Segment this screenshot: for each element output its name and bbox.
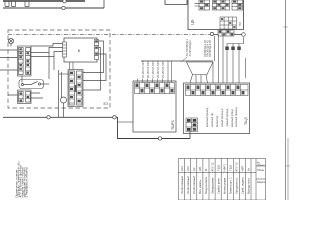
svg-text:ЦБ: ЦБ [190,19,195,25]
svg-text:Обнаружение: Обнаружение [211,177,215,194]
wire riser from harness junction [214,36,216,61]
connector cluster top 2 [213,0,230,10]
svg-text:Выводы конт.: Выводы конт. [247,178,251,194]
wire table (bottom right) [179,159,266,201]
svg-text:Б: Б [78,48,81,53]
wire funnel into TSchZ [187,62,214,83]
connector row TSchZ [186,85,249,96]
connector XS3 (pump block) [68,70,83,107]
svg-text:красный провод: красный провод [205,107,209,127]
svg-text:Срабат. реле: Срабат. реле [217,178,221,194]
wire riser to cut-off area [103,0,105,8]
svg-text:Особо важный: Особо важный [180,176,184,194]
fuse squares [225,47,229,51]
connector XP2 lower [18,90,32,104]
svg-text:Кн: Кн [247,167,251,171]
connector cluster top 1 [195,0,210,10]
wire bottom bus [3,117,190,138]
lamp HL1 [8,38,13,46]
wire color labels inside TSchZ [205,107,238,127]
svg-text:Тревога шл. 1: Тревога шл. 1 [229,177,233,194]
wire XP1 to ECU [31,44,63,80]
svg-text:ЗІ-ПРОВОД 2: ЗІ-ПРОВОД 2 [188,40,192,57]
svg-text:29-МУОЗ-ПР5: 29-МУОЗ-ПР5 [161,60,165,78]
motor M1 [59,70,67,117]
fuse row top-left (cut off) [3,0,85,2]
wire ECU to XS3 [70,62,74,70]
svg-text:черный провод: черный провод [225,108,229,127]
wire A1 right pins routing [83,41,106,90]
svg-text:Вкл. завесы: Вкл. завесы [198,179,202,194]
svg-text:ЕЗ: ЕЗ [104,102,109,106]
svg-text:ТШР1: ТШР1 [171,120,175,130]
connector cluster top 3 [232,0,243,10]
unit TShR1 box [133,81,176,132]
table body labels [180,176,266,194]
switch SA1 [19,76,49,89]
wire labels (rotated) [141,60,165,78]
harness dash-dot line [8,34,212,36]
wire tick XS3 left [59,73,70,75]
svg-text:Ш5: Ш5 [198,166,202,171]
node junction at box corner [113,116,116,119]
connector below CB [218,30,234,36]
notes text block (rotated) [15,161,29,198]
wire leader diagonal [181,57,187,62]
node junction mid bottom [158,137,161,140]
svg-text:АВТ: АВТ [241,165,245,171]
svg-text:зеленый провод: зеленый провод [234,107,238,127]
wire labels above funnel [185,38,212,57]
ECU A1 box [64,38,97,62]
svg-text:Вход контакта: Вход контакта [204,176,208,194]
svg-text:красный (общ): красный (общ) [230,109,234,127]
svg-text:28-МУОЗ-ПР4: 28-МУОЗ-ПР4 [156,60,160,78]
svg-text:синий провод 2: синий провод 2 [220,108,224,127]
node junction on bus2 [62,6,65,9]
wire stubs into XP1 from left [0,50,18,70]
svg-text:зеленый пр.: зеленый пр. [210,112,214,127]
relay K1 box (cut off) [165,0,187,5]
frame border right [285,0,287,200]
svg-text:Ф: Ф [204,169,208,171]
svg-text:объект: объект [257,164,266,167]
connector bottom of TSchZ [186,118,198,132]
svg-text:АТУ 12: АТУ 12 [211,162,215,171]
svg-text:25-МУОЗ-ПР1: 25-МУОЗ-ПР1 [141,60,145,78]
svg-text:ПРОВОД-6 КЗ: ПРОВОД-6 КЗ [208,40,212,57]
svg-text:Особо важный: Особо важный [186,176,190,194]
svg-text:АТУ 13: АТУ 13 [235,162,239,171]
wire harness solid segment [212,34,243,36]
wire bus2 [3,7,104,9]
svg-text:ХL2: ХL2 [186,166,190,171]
svg-text:ТШЗ: ТШЗ [217,165,221,171]
svg-text:ХL2: ХL2 [180,166,184,171]
svg-text:белый пр: белый пр [215,115,219,127]
svg-text:27-МУОЗ-ПРЗ: 27-МУОЗ-ПРЗ [151,61,155,78]
svg-text:ПЗ: ПЗ [238,22,242,26]
svg-text:Особо важный: Особо важный [192,176,196,194]
connector pins A1 left [63,42,67,57]
svg-text:26-МУОЗ-ПР2: 26-МУОЗ-ПР2 [146,60,150,78]
svg-text:ТЩЗ: ТЩЗ [244,117,248,125]
svg-text:Городская сл.: Городская сл. [235,177,239,194]
svg-text:2 Разрядность объекта: 2 Разрядность объекта [25,167,29,197]
wire drop with inline fuses [219,35,246,84]
unit TSchZ box [184,83,250,134]
svg-text:Сраб. защиты: Сраб. защиты [241,177,245,194]
svg-text:Кнопка управ.: Кнопка управ. [223,177,227,194]
enclosure dashed box (cab unit) [8,30,110,108]
node junction on bus1 [63,0,66,3]
wire stubs XP2 [8,93,43,98]
svg-text:Защита: Защита [257,181,266,184]
table header labels [180,162,266,173]
svg-text:Обозн.: Обозн. [257,169,265,172]
wire stub to TShR1 [118,121,134,123]
wire drops with labels [138,61,172,83]
connector pins A1 right [95,40,99,60]
svg-text:Х2: Х2 [192,167,196,171]
connector XP1 upper [18,46,32,76]
harness bus above TShR1 [141,60,213,62]
svg-text:ЧФР1: ЧФР1 [223,164,227,172]
terminal grid P3 [220,17,237,29]
central unit CB box [188,0,244,30]
node junction bottom bus [47,116,50,119]
connector row TShR1 [135,83,175,94]
node corner junction [242,33,246,37]
svg-text:ТШЗ: ТШЗ [229,165,233,171]
node junction harness [210,32,213,35]
